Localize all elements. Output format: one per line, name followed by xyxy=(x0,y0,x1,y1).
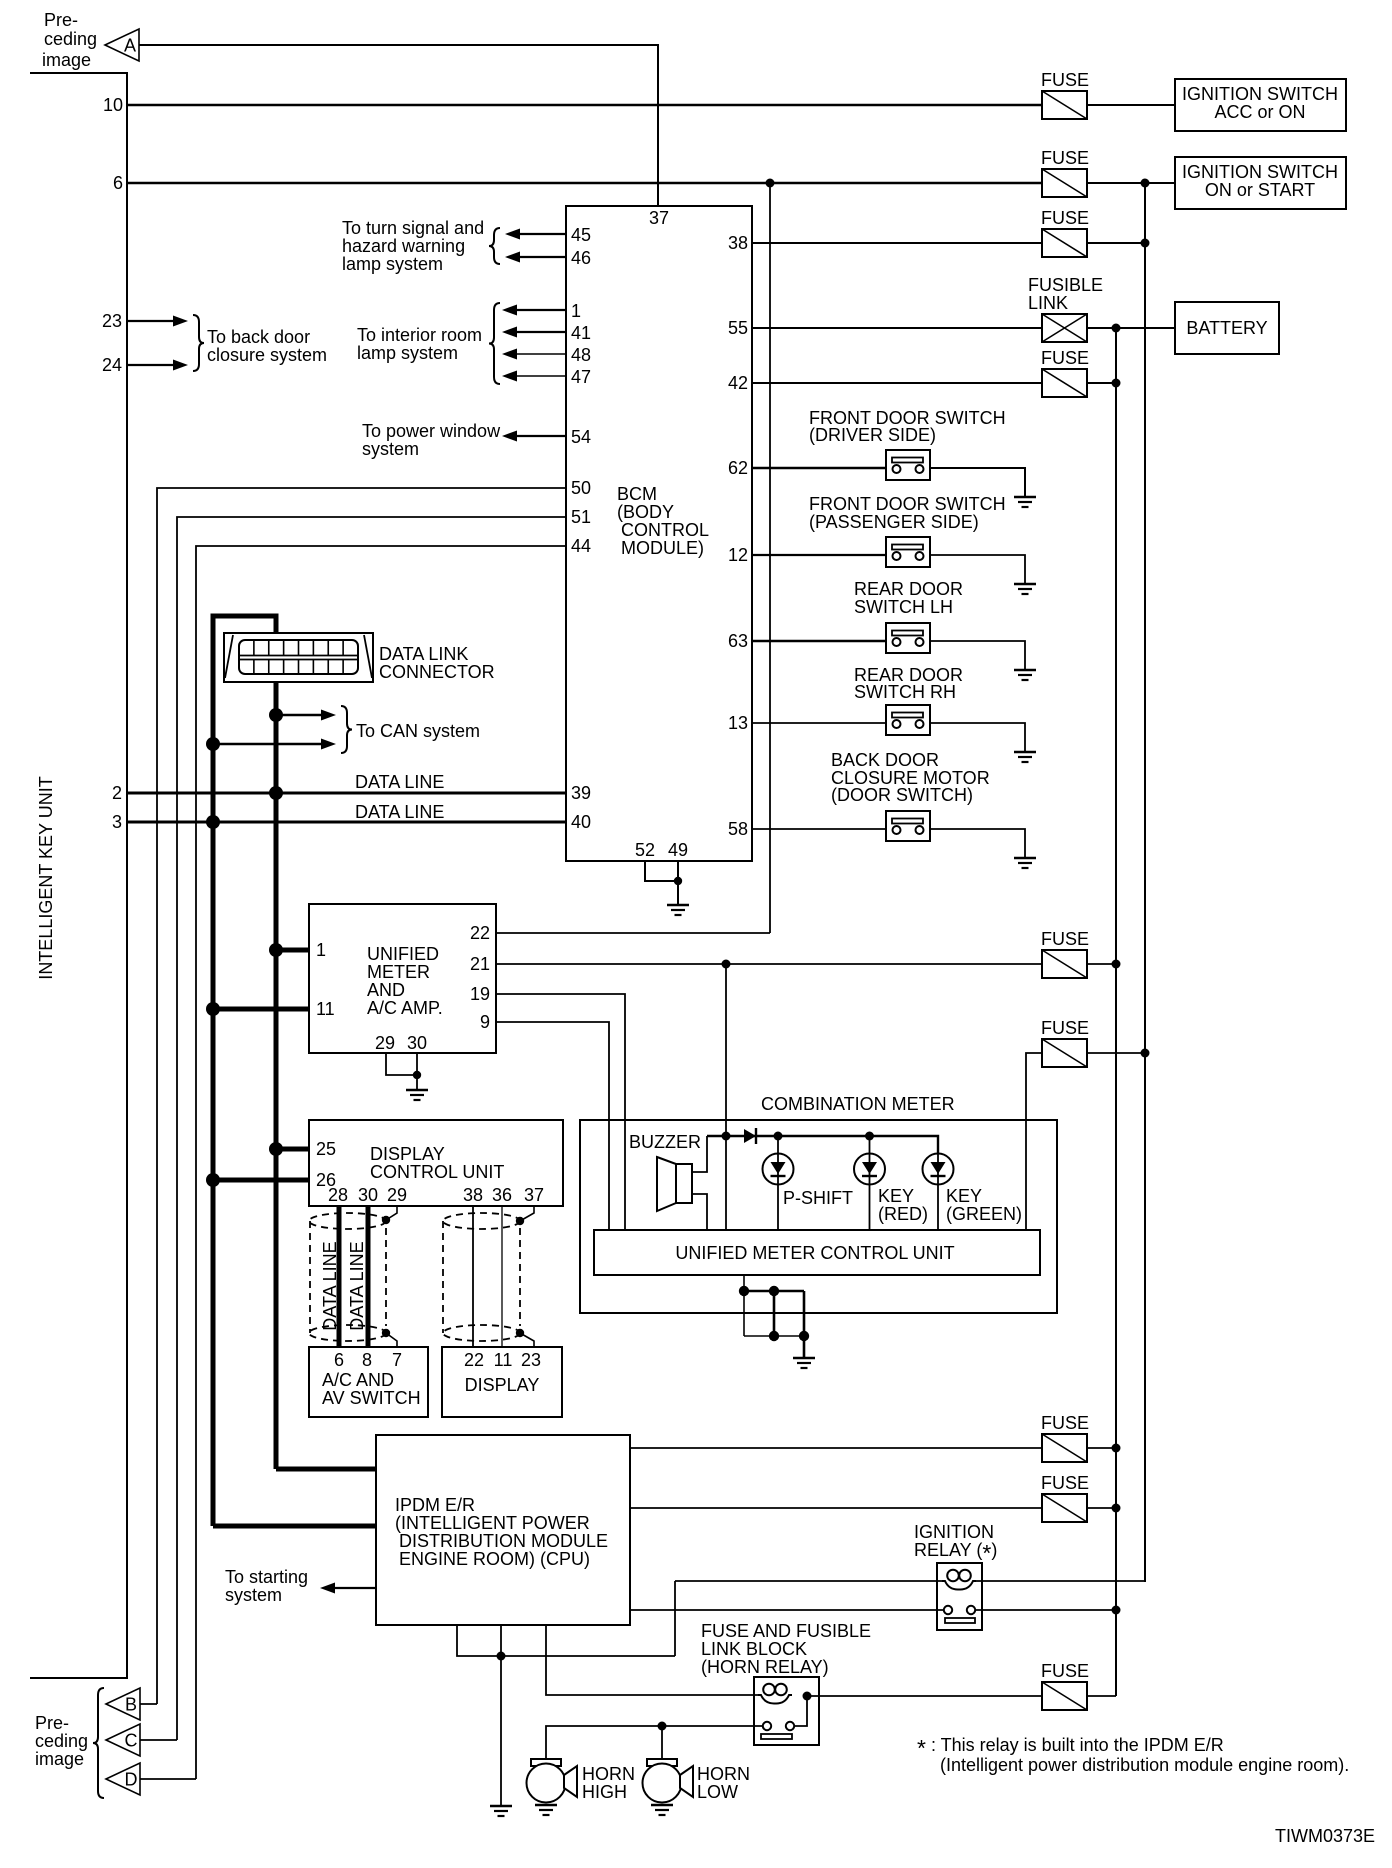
bus x1116 battery feed xyxy=(1115,328,1117,1696)
fuse F8 label xyxy=(1041,1473,1089,1493)
svg-text:A/C AMP.: A/C AMP. xyxy=(367,998,443,1018)
wire fuse F3 to bus xyxy=(1087,242,1145,244)
wire pin 24 arrow xyxy=(127,360,188,371)
BCM pin 58 label xyxy=(728,819,748,839)
svg-text:9: 9 xyxy=(480,1012,490,1032)
wire UM pin 9 down to UMCU xyxy=(496,1022,609,1230)
wire buzzer top terminal xyxy=(692,1136,707,1172)
wire CAN arrow 1 xyxy=(276,710,336,721)
svg-text:DISTRIBUTION MODULE: DISTRIBUTION MODULE xyxy=(399,1531,608,1551)
BCM pin 54 label xyxy=(571,427,591,447)
svg-text:DISPLAY: DISPLAY xyxy=(465,1375,540,1395)
ground IPDM xyxy=(490,1806,512,1816)
BCM pin 47 label xyxy=(571,367,591,387)
horn low symbol xyxy=(643,1759,694,1803)
svg-text:KEY: KEY xyxy=(946,1186,982,1206)
display pin 23 label xyxy=(521,1350,541,1370)
wire fusible link to battery xyxy=(1087,327,1175,329)
wire pin 13 to switch xyxy=(752,722,886,724)
junction F3/bus1145 xyxy=(1141,239,1150,248)
wire DCU38 to DISPLAY22 xyxy=(472,1206,474,1347)
junction shield top left xyxy=(382,1216,390,1224)
wire DCU28 to AV6 (data line) xyxy=(337,1206,342,1347)
wire lamp feed line xyxy=(707,1136,938,1154)
ground switch 3 xyxy=(1014,670,1036,680)
fuse F1 xyxy=(1042,91,1087,119)
rear door switch LH xyxy=(886,623,930,653)
svg-text:HORN: HORN xyxy=(697,1764,750,1784)
svg-text:CONTROL UNIT: CONTROL UNIT xyxy=(370,1162,504,1182)
brace interior-lamp group xyxy=(489,303,500,384)
svg-text:hazard warning: hazard warning xyxy=(342,236,465,256)
svg-text:8: 8 xyxy=(362,1350,372,1370)
TIWM0373E id label xyxy=(1275,1826,1375,1846)
wire UM pin 21 to fuse F5 xyxy=(496,963,1042,965)
wire pin 6 to fuse xyxy=(127,182,1042,184)
fuse F2 label xyxy=(1041,148,1089,168)
wire switch to ground 3 xyxy=(930,641,1025,670)
wire from A to BCM pin 37 xyxy=(139,45,658,206)
BCM pin 46 label xyxy=(571,248,591,268)
UM pin 30 label xyxy=(407,1033,427,1053)
IPDM name label xyxy=(395,1495,608,1569)
svg-text:TIWM0373E: TIWM0373E xyxy=(1275,1826,1375,1846)
wire horn relay internal xyxy=(794,1696,807,1726)
fusible link label xyxy=(1028,275,1103,313)
svg-text:DATA LINE: DATA LINE xyxy=(320,1241,340,1330)
svg-text:(PASSENGER SIDE): (PASSENGER SIDE) xyxy=(809,512,979,532)
junction mesh top a xyxy=(739,1286,749,1296)
wire triangle D xyxy=(140,1778,196,1780)
svg-text:ENGINE ROOM) (CPU): ENGINE ROOM) (CPU) xyxy=(399,1549,590,1569)
thick bus below DLC xyxy=(274,682,279,1469)
svg-text:system: system xyxy=(225,1585,282,1605)
wire shield drain to DISPLAY23 xyxy=(520,1333,534,1347)
front door switch driver side xyxy=(886,450,930,480)
svg-text:(DRIVER SIDE): (DRIVER SIDE) xyxy=(809,425,936,445)
junction UM1/bus276 xyxy=(269,943,283,957)
wire DCU30 to AV8 (data line) xyxy=(366,1206,371,1347)
svg-text:FUSE: FUSE xyxy=(1041,1413,1089,1433)
svg-text:To CAN system: To CAN system xyxy=(356,721,480,741)
junction IPDM ground pin xyxy=(497,1652,506,1661)
wire fuse F5 to bus1116 xyxy=(1087,963,1116,965)
svg-text:image: image xyxy=(42,50,91,70)
svg-text:lamp system: lamp system xyxy=(342,254,443,274)
svg-text:COMBINATION METER: COMBINATION METER xyxy=(761,1094,955,1114)
bus x1145 ignition feed xyxy=(1144,183,1146,1582)
svg-text:1: 1 xyxy=(571,301,581,321)
wire ignition relay contact to bus1116 xyxy=(976,1609,1116,1611)
svg-text:21: 21 xyxy=(470,954,490,974)
wire BCM pin 47 arrow xyxy=(502,371,566,382)
wire BCM pin 46 arrow xyxy=(505,252,566,263)
fuse F5 label xyxy=(1041,929,1089,949)
svg-text:FUSIBLE: FUSIBLE xyxy=(1028,275,1103,295)
rear door switch LH label xyxy=(854,579,963,617)
svg-text:To power window: To power window xyxy=(362,421,501,441)
svg-text:To starting: To starting xyxy=(225,1567,308,1587)
DATA LINE rotated label 2 xyxy=(347,1241,367,1330)
wire pin 51 xyxy=(177,517,566,1740)
BCM pin 37 label xyxy=(649,208,669,228)
wire BCM pin 45 arrow xyxy=(505,229,566,240)
svg-text:36: 36 xyxy=(492,1185,512,1205)
junction DCU26/bus213 xyxy=(206,1173,220,1187)
svg-text:41: 41 xyxy=(571,323,591,343)
svg-text:INTELLIGENT KEY UNIT: INTELLIGENT KEY UNIT xyxy=(36,776,56,979)
wire data line pin3 to BCM 40 xyxy=(127,821,566,824)
wire IPDM to fuse F8 xyxy=(630,1507,1042,1509)
svg-text:ceding: ceding xyxy=(44,29,97,49)
wire bus276 into IPDM xyxy=(276,1467,376,1472)
LED P-SHIFT xyxy=(763,1154,794,1185)
brace turn-signal group xyxy=(489,228,500,264)
ground switch 5 xyxy=(1014,858,1036,868)
junction horn low xyxy=(658,1722,667,1731)
intelligent key unit box outline xyxy=(30,73,127,1678)
junction KEY RED branch xyxy=(865,1132,874,1141)
IPDM E/R box xyxy=(376,1435,630,1625)
ground unified meter xyxy=(406,1090,428,1100)
to interior room label xyxy=(357,325,482,363)
to turn signal label xyxy=(342,218,484,274)
wire to starting system arrow xyxy=(320,1583,376,1594)
wire DCU29 shield drain top xyxy=(386,1206,397,1220)
svg-text:P-SHIFT: P-SHIFT xyxy=(783,1188,853,1208)
svg-text:22: 22 xyxy=(470,923,490,943)
svg-text:LOW: LOW xyxy=(697,1782,738,1802)
wire triangle B xyxy=(140,1703,157,1705)
wire UM pin 1 xyxy=(276,948,309,953)
svg-text:lamp system: lamp system xyxy=(357,343,458,363)
wire pin 58 to switch xyxy=(752,828,886,830)
to starting system label xyxy=(225,1567,308,1605)
svg-text:63: 63 xyxy=(728,631,748,651)
fuse F4 label xyxy=(1041,348,1089,368)
wire switch to ground 5 xyxy=(930,829,1025,858)
wire fuse F4 to bus xyxy=(1087,382,1116,384)
wire DCU pin 26 xyxy=(213,1178,309,1183)
svg-text:10: 10 xyxy=(103,95,123,115)
horn relay coil xyxy=(758,1684,792,1704)
wire pin 44 xyxy=(196,546,566,1779)
svg-text:2: 2 xyxy=(112,783,122,803)
svg-text:To back door: To back door xyxy=(207,327,310,347)
svg-text:47: 47 xyxy=(571,367,591,387)
svg-text:29: 29 xyxy=(387,1185,407,1205)
svg-text:42: 42 xyxy=(728,373,748,393)
svg-text:51: 51 xyxy=(571,507,591,527)
BUZZER label xyxy=(629,1132,701,1152)
wire BCM pin 1 arrow xyxy=(502,305,566,316)
LED KEY GREEN xyxy=(923,1154,954,1185)
fusible link FL1 xyxy=(1042,314,1087,342)
display pin 11 label xyxy=(494,1350,513,1370)
junction 29/30 xyxy=(413,1071,421,1079)
To CAN system label xyxy=(356,721,480,741)
svg-text:22: 22 xyxy=(464,1350,484,1370)
BCM pin 12 label xyxy=(728,545,748,565)
svg-text:25: 25 xyxy=(316,1139,336,1159)
UNIFIED METER CONTROL UNIT label xyxy=(675,1243,954,1263)
display pin 22 label xyxy=(464,1350,484,1370)
svg-text:Pre-: Pre- xyxy=(44,10,78,30)
to power window label xyxy=(362,421,501,459)
junction 52/49 xyxy=(674,877,682,885)
wire ignition relay coil to bus1145 xyxy=(976,1580,1145,1582)
svg-text:KEY: KEY xyxy=(878,1186,914,1206)
junction pin21/buzzer branch xyxy=(722,960,731,969)
svg-text:B: B xyxy=(125,1695,137,1715)
wire mesh vertical b xyxy=(773,1291,776,1336)
junction CAN 1 xyxy=(269,708,283,722)
wire mesh bottom xyxy=(744,1335,804,1337)
fuse F3 label xyxy=(1041,208,1089,228)
svg-text:AV SWITCH: AV SWITCH xyxy=(322,1388,421,1408)
pin 10 label xyxy=(103,95,123,115)
footnote relay note xyxy=(917,1735,1349,1775)
BCM pin 45 label xyxy=(571,225,591,245)
svg-text:(Intelligent power distributio: (Intelligent power distribution module e… xyxy=(940,1755,1349,1775)
DCU pin 29 label xyxy=(387,1185,407,1205)
AV pin 8 label xyxy=(362,1350,372,1370)
wire pin 38 to fuse F3 xyxy=(752,242,1042,244)
UM pin 21 label xyxy=(470,954,490,974)
fuse F8 xyxy=(1042,1494,1087,1522)
svg-text:6: 6 xyxy=(113,173,123,193)
shield cylinder left xyxy=(309,1213,386,1341)
svg-text:BACK DOOR: BACK DOOR xyxy=(831,750,939,770)
DCU pin 36 label xyxy=(492,1185,512,1205)
svg-text:30: 30 xyxy=(358,1185,378,1205)
connector triangle D xyxy=(106,1763,140,1795)
buzzer speaker symbol xyxy=(657,1157,692,1211)
junction CAN 2 xyxy=(206,737,220,751)
DCU pin 26 label xyxy=(316,1170,336,1190)
wire P-SHIFT LED to UMCU xyxy=(777,1136,779,1230)
brace CAN group xyxy=(341,706,352,753)
bus x770 pin37 junction to unified meter 22 xyxy=(769,183,771,933)
junction P-SHIFT branch xyxy=(774,1132,783,1141)
IGNITION SWITCH ACC or ON box xyxy=(1175,79,1346,131)
fuse F3 xyxy=(1042,229,1087,257)
ground switch 4 xyxy=(1014,752,1036,762)
wire BCM pin 48 arrow xyxy=(502,349,566,360)
wire mesh vertical c xyxy=(803,1291,806,1358)
wire IPDM bottom pin1 xyxy=(457,1625,675,1656)
svg-text:REAR DOOR: REAR DOOR xyxy=(854,579,963,599)
svg-text:29: 29 xyxy=(375,1033,395,1053)
svg-text:DATA LINE: DATA LINE xyxy=(347,1241,367,1330)
svg-text:DATA LINE: DATA LINE xyxy=(355,772,444,792)
svg-text:38: 38 xyxy=(463,1185,483,1205)
wire pin 50 xyxy=(157,488,566,1704)
wire horn relay coil to fuse F9 xyxy=(807,1695,1042,1697)
fuse F1 label xyxy=(1041,70,1089,90)
wire switch to ground 1 xyxy=(930,468,1025,497)
svg-text:MODULE): MODULE) xyxy=(621,538,704,558)
svg-text:DISPLAY: DISPLAY xyxy=(370,1144,445,1164)
svg-text:FUSE: FUSE xyxy=(1041,208,1089,228)
wire switch to ground 4 xyxy=(930,723,1025,752)
AV pin 6 label xyxy=(334,1350,344,1370)
UM pin 19 label xyxy=(470,984,490,1004)
svg-text:11: 11 xyxy=(316,999,335,1019)
svg-text:ceding: ceding xyxy=(35,1731,88,1751)
svg-text:UNIFIED: UNIFIED xyxy=(367,944,439,964)
wire KEY RED LED to UMCU xyxy=(869,1136,871,1230)
data link connector symbol xyxy=(224,633,373,682)
svg-text:(DOOR SWITCH): (DOOR SWITCH) xyxy=(831,785,973,805)
svg-text:(HORN RELAY): (HORN RELAY) xyxy=(701,1657,829,1677)
svg-text:Pre-: Pre- xyxy=(35,1713,69,1733)
svg-text:To interior room: To interior room xyxy=(357,325,482,345)
KEY (GREEN) label xyxy=(946,1186,1022,1224)
fuse F2 xyxy=(1042,169,1087,197)
wire UM pin 19 down to UMCU xyxy=(496,994,625,1230)
BCM pin 38 label xyxy=(728,233,748,253)
svg-text:FUSE: FUSE xyxy=(1041,348,1089,368)
UM pin 29 label xyxy=(375,1033,395,1053)
AV pin 7 label xyxy=(392,1350,402,1370)
svg-text:49: 49 xyxy=(668,840,688,860)
rear door switch RH xyxy=(886,705,930,735)
DCU pin 25 label xyxy=(316,1139,336,1159)
BCM pin 13 label xyxy=(728,713,748,733)
horn high symbol xyxy=(527,1759,578,1803)
wire pin 63 to switch xyxy=(752,640,886,642)
BATTERY box xyxy=(1175,302,1279,354)
unified meter control unit box xyxy=(594,1230,1040,1275)
svg-text:HIGH: HIGH xyxy=(582,1782,627,1802)
junction F7/bus1116 xyxy=(1112,1444,1121,1453)
wire DCU36 to DISPLAY11 xyxy=(501,1206,503,1347)
svg-text:A: A xyxy=(124,36,136,56)
wire UMCU ground pin a xyxy=(743,1275,745,1336)
junction F4/bus1116 xyxy=(1112,379,1121,388)
wire fuse F8 to bus1116 xyxy=(1087,1507,1116,1509)
svg-text:54: 54 xyxy=(571,427,591,447)
svg-text:BATTERY: BATTERY xyxy=(1186,318,1267,338)
wire shield drain to AV7 xyxy=(386,1333,397,1347)
svg-text:28: 28 xyxy=(328,1185,348,1205)
junction relay/bus1116 xyxy=(1112,1606,1121,1615)
junction shield top right xyxy=(516,1217,524,1225)
svg-text:48: 48 xyxy=(571,345,591,365)
fuse F6 xyxy=(1042,1039,1087,1067)
fuse F7 xyxy=(1042,1434,1087,1462)
BCM pin 42 label xyxy=(728,373,748,393)
wire fuse F6 to bus1145 xyxy=(1087,1052,1145,1054)
svg-text:37: 37 xyxy=(649,208,669,228)
svg-text:(BODY: (BODY xyxy=(617,502,674,522)
ignition relay contacts xyxy=(944,1606,975,1623)
wire BCM pin 41 arrow xyxy=(502,327,566,338)
display control unit box xyxy=(309,1120,563,1206)
svg-text:D: D xyxy=(125,1770,138,1790)
relay ignition box xyxy=(937,1563,982,1630)
svg-text:23: 23 xyxy=(102,311,122,331)
svg-text:FUSE: FUSE xyxy=(1041,70,1089,90)
front door switch passenger label xyxy=(809,494,1006,532)
svg-text:FRONT DOOR SWITCH: FRONT DOOR SWITCH xyxy=(809,494,1006,514)
svg-text:SWITCH RH: SWITCH RH xyxy=(854,682,956,702)
ground combination meter xyxy=(793,1358,815,1368)
svg-text:46: 46 xyxy=(571,248,591,268)
fuse F7 label xyxy=(1041,1413,1089,1433)
DISPLAY label xyxy=(465,1375,540,1395)
back door closure motor label xyxy=(831,750,990,805)
wire DCU pin 25 xyxy=(276,1147,309,1152)
wire BCM pin 54 arrow xyxy=(502,431,566,442)
junction pin6/bus1145 xyxy=(1141,179,1150,188)
IGNITION SWITCH ON or START box xyxy=(1175,157,1346,209)
svg-text:7: 7 xyxy=(392,1350,402,1370)
junction mesh top b xyxy=(769,1286,779,1296)
pin 2 label xyxy=(112,783,122,803)
wire triangle C xyxy=(140,1739,177,1741)
wire bus213 into IPDM xyxy=(213,1524,376,1529)
svg-text:system: system xyxy=(362,439,419,459)
A/C and AV switch box xyxy=(309,1347,428,1417)
wire fuse F6 branch into meter xyxy=(1026,1053,1042,1230)
BCM pin 51 label xyxy=(571,507,591,527)
wire CAN arrow 2 xyxy=(213,739,336,750)
unified meter and A/C amp box xyxy=(309,904,496,1053)
BCM pin 55 label xyxy=(728,318,748,338)
svg-text:FUSE: FUSE xyxy=(1041,1018,1089,1038)
junction F8/bus1116 xyxy=(1112,1504,1121,1513)
HORN HIGH label xyxy=(582,1764,635,1802)
DCU pin 38 label xyxy=(463,1185,483,1205)
fuse F5 xyxy=(1042,950,1087,978)
junction UM11/bus213 xyxy=(206,1002,220,1016)
brace back-door group xyxy=(193,315,204,371)
wire horn feed xyxy=(546,1726,763,1759)
rear door switch RH label xyxy=(854,665,963,702)
BCM pin 52 label xyxy=(635,840,655,860)
fuse F6 label xyxy=(1041,1018,1089,1038)
wire buzzer bottom terminal xyxy=(692,1194,707,1230)
wire pin 52 to ground node xyxy=(645,861,678,881)
svg-text:C: C xyxy=(125,1731,138,1751)
svg-text:IGNITION: IGNITION xyxy=(914,1522,994,1542)
svg-text:52: 52 xyxy=(635,840,655,860)
UM pin 22 label xyxy=(470,923,490,943)
pin 23 label xyxy=(102,311,122,331)
svg-text:LINK: LINK xyxy=(1028,293,1068,313)
pin 3 label xyxy=(112,812,122,832)
wire vertical to relay coil xyxy=(674,1581,676,1656)
svg-text:12: 12 xyxy=(728,545,748,565)
horn relay contacts xyxy=(761,1722,794,1739)
wire pin21 branch down to UMCU xyxy=(725,964,727,1230)
svg-text:30: 30 xyxy=(407,1033,427,1053)
junction battery/bus1116 xyxy=(1112,324,1121,333)
wire IPDM pin2 to ground xyxy=(500,1625,502,1806)
junction dataline/bus213 xyxy=(206,815,220,829)
svg-text:1: 1 xyxy=(316,940,326,960)
svg-text:19: 19 xyxy=(470,984,490,1004)
FUSE AND FUSIBLE LINK BLOCK label xyxy=(701,1621,871,1677)
svg-text:FUSE: FUSE xyxy=(1041,929,1089,949)
svg-text:FUSE: FUSE xyxy=(1041,1661,1089,1681)
svg-text:UNIFIED METER CONTROL UNIT: UNIFIED METER CONTROL UNIT xyxy=(675,1243,954,1263)
wire fuse F2 to ignition switch ON xyxy=(1087,182,1175,184)
wire UMCU ground mesh top xyxy=(744,1290,804,1293)
svg-text:CONTROL: CONTROL xyxy=(621,520,709,540)
